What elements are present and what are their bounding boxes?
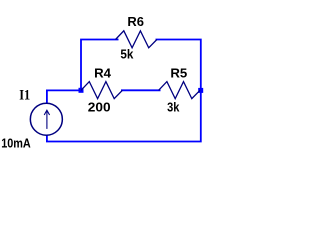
svg-text:R5: R5 [170,66,187,80]
svg-text:R4: R4 [94,66,111,80]
svg-text:R6: R6 [127,15,144,29]
svg-text:10mA: 10mA [1,136,31,150]
svg-text:3k: 3k [167,100,180,114]
svg-text:200: 200 [88,100,111,114]
svg-text:5k: 5k [120,48,134,62]
svg-text:I1: I1 [19,88,30,104]
